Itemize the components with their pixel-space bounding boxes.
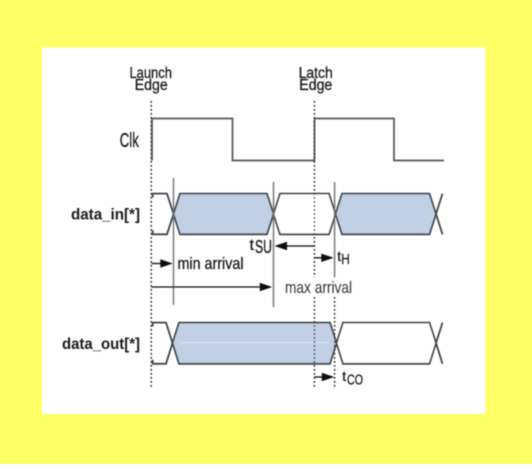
svg-text:t: t xyxy=(342,368,346,384)
svg-text:max arrival: max arrival xyxy=(285,278,352,297)
min arrival arrow xyxy=(152,259,173,267)
latch edge dotted line xyxy=(313,101,315,389)
marker line at hold crossing xyxy=(334,182,336,277)
tCO arrow xyxy=(314,373,334,381)
data_in right opening xyxy=(436,194,443,235)
svg-text:t: t xyxy=(250,237,255,254)
data_in invalid window (white hexagon) xyxy=(274,194,336,235)
marker line at min arrival crossing xyxy=(173,178,175,305)
tCO dotted line xyxy=(334,277,336,389)
white panel xyxy=(42,48,486,415)
max arrival arrow xyxy=(152,283,273,291)
tH arrow xyxy=(314,254,333,262)
label max arrival (with white backing) xyxy=(283,278,354,298)
svg-text:data_out[*]: data_out[*] xyxy=(62,336,140,353)
data_out invalid window (white hexagon) xyxy=(337,323,437,364)
svg-text:SU: SU xyxy=(255,237,272,257)
launch edge dotted line xyxy=(150,101,152,389)
clk waveform xyxy=(152,119,444,161)
label Latch Edge xyxy=(299,65,333,94)
svg-text:min arrival: min arrival xyxy=(178,254,244,273)
data_out valid window (blue hexagon) xyxy=(173,323,337,364)
svg-text:Edge: Edge xyxy=(299,77,332,94)
label tSU xyxy=(250,237,273,257)
data_out left stub xyxy=(153,323,173,364)
svg-text:data_in[*]: data_in[*] xyxy=(71,207,140,224)
data_out right opening xyxy=(436,323,443,364)
label Launch Edge xyxy=(129,65,172,94)
svg-text:CO: CO xyxy=(347,373,363,389)
data_out highlight streak xyxy=(180,342,329,344)
data_in left stub xyxy=(153,194,174,235)
data_in valid window 2 (blue hexagon) xyxy=(336,194,437,235)
svg-text:H: H xyxy=(341,252,350,268)
label tCO xyxy=(342,368,363,389)
marker line at max arrival crossing xyxy=(273,182,275,307)
data_in valid window 1 (blue hexagon) xyxy=(174,194,274,235)
svg-text:Edge: Edge xyxy=(135,77,168,94)
label tH xyxy=(337,248,350,268)
svg-text:Clk: Clk xyxy=(120,130,140,152)
tSU arrow xyxy=(275,242,315,250)
